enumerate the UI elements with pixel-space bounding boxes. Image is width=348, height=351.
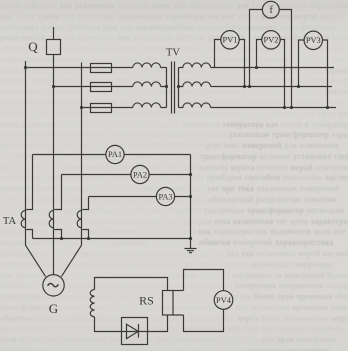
ammeter wire 3 xyxy=(89,196,191,198)
junction TA2 bus xyxy=(60,237,63,240)
shunt top edge extension xyxy=(173,290,184,292)
bus line 3 (left section) xyxy=(82,107,167,109)
generator tilde xyxy=(48,283,59,286)
svg-text:Q: Q xyxy=(28,39,38,54)
phase C vertical xyxy=(62,63,82,277)
ammeter common vertical xyxy=(190,155,192,249)
f right lead xyxy=(279,10,291,108)
excitation winding coil xyxy=(90,290,94,317)
shunt RS rectangle xyxy=(163,291,174,316)
CT TA3 secondary winding xyxy=(77,211,81,228)
TV secondary coil 1 xyxy=(179,63,211,68)
output line 1 xyxy=(211,67,334,69)
svg-text:RS: RS xyxy=(139,294,154,308)
phase A vertical xyxy=(26,61,46,276)
TV secondary star connector xyxy=(178,68,180,108)
junction PV3-right line3 xyxy=(326,106,329,109)
svg-text:PA1: PA1 xyxy=(108,150,122,159)
PV2 left lead xyxy=(257,40,262,68)
PV4 loop xyxy=(184,270,224,332)
svg-text:TV: TV xyxy=(166,48,180,59)
svg-text:G: G xyxy=(49,301,58,316)
bus line 2 (left section) xyxy=(54,86,167,88)
svg-text:PV3: PV3 xyxy=(306,36,321,45)
svg-text:PV1: PV1 xyxy=(223,36,238,45)
junction f-left line2 xyxy=(248,85,251,88)
CT TA1 secondary winding xyxy=(21,211,25,228)
bus line 1 (left section through fuse and TV primary coil 1) xyxy=(26,67,167,69)
junction PV2-left line1 xyxy=(255,66,258,69)
svg-text:PA3: PA3 xyxy=(158,192,172,201)
excitation loop top wire xyxy=(95,278,168,291)
junction wire3 common xyxy=(189,195,192,198)
TV primary coil 1 xyxy=(133,63,161,68)
junction PV3-left line2 xyxy=(297,85,300,88)
TA1 secondary top lead xyxy=(26,155,32,210)
TA3 secondary top lead xyxy=(82,197,88,210)
voltmeter PV4 xyxy=(214,291,233,310)
TA2 secondary bottom lead xyxy=(54,230,61,239)
svg-text:PV2: PV2 xyxy=(264,36,279,45)
TA3 secondary bottom lead xyxy=(82,230,88,239)
TV secondary coil 3 xyxy=(179,103,211,108)
CT TA2 secondary winding xyxy=(49,211,53,228)
svg-text:f: f xyxy=(270,5,274,16)
junction primary star line2 xyxy=(165,85,168,88)
output line 3 xyxy=(211,107,336,109)
voltmeter PV1 xyxy=(221,31,239,49)
TV primary coil 2 xyxy=(133,82,161,87)
TV primary star connector xyxy=(166,68,168,108)
frequency meter f xyxy=(262,1,279,18)
fuse F2 xyxy=(91,83,112,92)
junction bus common xyxy=(189,237,192,240)
junction phase A line1 xyxy=(24,66,27,69)
phase B vertical with Q xyxy=(53,27,55,275)
junction PV1-right line2 xyxy=(243,85,246,88)
svg-text:PA2: PA2 xyxy=(133,170,147,179)
fuse F1 xyxy=(91,64,112,73)
excitation loop bottom wire xyxy=(95,315,168,332)
voltmeter PV2 xyxy=(262,31,280,49)
f left lead xyxy=(250,10,263,87)
PV2 right lead xyxy=(280,40,284,108)
fuse F3 xyxy=(91,104,112,113)
junction TA3 bus xyxy=(87,237,90,240)
junction phase C line3 xyxy=(80,106,83,109)
bleed-through text background xyxy=(0,0,348,1)
PV1 right lead xyxy=(239,40,244,87)
diode wire through box xyxy=(122,331,148,333)
junction PV2-right line3 xyxy=(283,106,286,109)
TV primary coil 3 xyxy=(133,103,161,108)
PV1 left lead xyxy=(215,40,221,68)
breaker Q box xyxy=(47,40,61,55)
diode box xyxy=(122,318,148,345)
svg-text:PV4: PV4 xyxy=(216,296,232,305)
ground xyxy=(185,249,197,253)
junction wire2 common xyxy=(189,173,192,176)
ammeter wire 1 xyxy=(33,154,191,156)
secondary common bus xyxy=(33,238,191,240)
junction secondary star line2 xyxy=(177,85,180,88)
junction f-right line3 xyxy=(290,106,293,109)
ammeter PA1 xyxy=(106,145,124,163)
svg-text:TA: TA xyxy=(3,216,17,227)
output line 2 xyxy=(211,86,332,88)
PV3 right lead xyxy=(323,40,328,108)
junction phase B line2 xyxy=(52,85,55,88)
TA2 secondary top lead xyxy=(54,175,61,210)
ammeter PA3 xyxy=(156,187,174,205)
shunt bottom edge extension xyxy=(173,314,184,316)
TA1 secondary bottom lead xyxy=(26,230,32,239)
TV secondary coil 2 xyxy=(179,82,211,87)
ammeter wire 2 xyxy=(62,174,191,176)
diode symbol xyxy=(127,324,139,339)
PV3 left lead xyxy=(299,40,305,87)
TV core bars xyxy=(172,62,175,114)
voltmeter PV3 xyxy=(304,31,322,49)
generator G circle xyxy=(43,275,64,296)
ammeter PA2 xyxy=(131,165,149,183)
